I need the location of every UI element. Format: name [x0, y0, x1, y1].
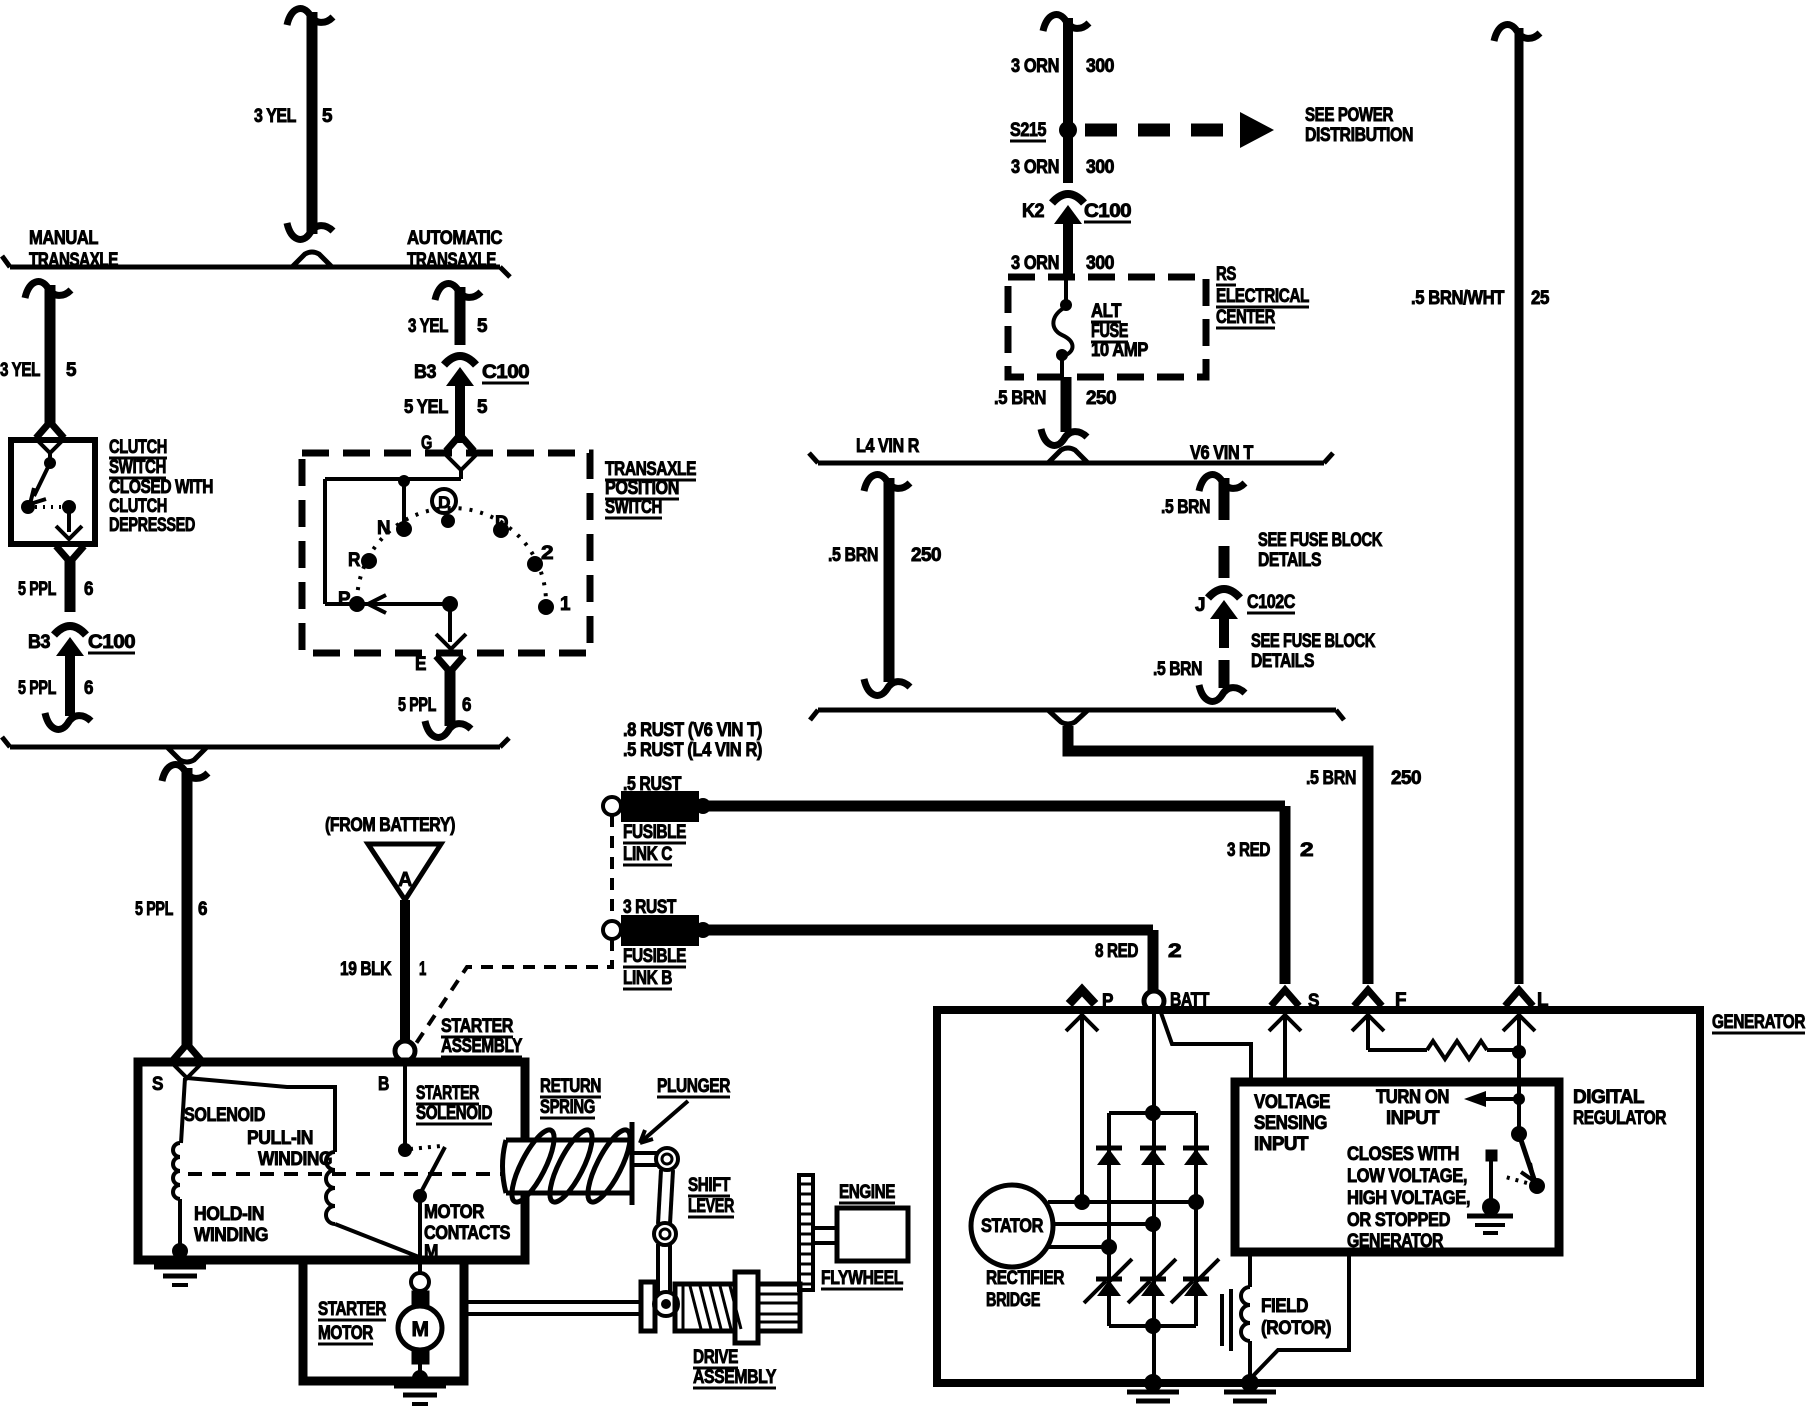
svg-text:SWITCH: SWITCH	[109, 457, 166, 478]
svg-text:RETURN: RETURN	[540, 1076, 601, 1097]
svg-text:6: 6	[84, 678, 93, 699]
svg-text:.5 RUST (L4 VIN R): .5 RUST (L4 VIN R)	[623, 740, 762, 761]
svg-text:6: 6	[84, 579, 93, 600]
svg-text:VOLTAGE: VOLTAGE	[1254, 1092, 1330, 1113]
svg-text:RS: RS	[1216, 264, 1236, 285]
svg-text:POSITION: POSITION	[605, 478, 679, 499]
svg-text:M: M	[412, 1318, 429, 1341]
svg-text:A: A	[398, 869, 412, 891]
svg-text:RECTIFIER: RECTIFIER	[986, 1268, 1065, 1289]
svg-text:25: 25	[1531, 288, 1550, 309]
svg-text:SWITCH: SWITCH	[605, 497, 662, 518]
svg-text:GENERATOR: GENERATOR	[1347, 1231, 1444, 1252]
svg-text:BRIDGE: BRIDGE	[986, 1290, 1040, 1311]
svg-text:PULL-IN: PULL-IN	[247, 1128, 313, 1149]
svg-text:300: 300	[1086, 56, 1114, 77]
svg-text:V6 VIN T: V6 VIN T	[1190, 443, 1254, 464]
svg-text:CLUTCH: CLUTCH	[109, 437, 167, 458]
svg-text:C102C: C102C	[1247, 592, 1296, 613]
svg-text:MOTOR: MOTOR	[318, 1323, 374, 1344]
svg-text:B3: B3	[28, 632, 50, 653]
svg-text:CONTACTS: CONTACTS	[424, 1223, 510, 1244]
svg-text:5 PPL: 5 PPL	[135, 899, 174, 920]
svg-text:E: E	[415, 654, 426, 675]
svg-text:SPRING: SPRING	[540, 1097, 595, 1118]
svg-text:L: L	[1537, 990, 1549, 1011]
svg-text:J: J	[1195, 595, 1205, 616]
svg-text:2: 2	[1168, 941, 1181, 962]
svg-text:STATOR: STATOR	[981, 1216, 1044, 1237]
svg-text:FUSE: FUSE	[1091, 321, 1128, 342]
svg-text:5 PPL: 5 PPL	[18, 579, 57, 600]
svg-text:INPUT: INPUT	[1254, 1134, 1309, 1155]
svg-text:2: 2	[541, 543, 553, 564]
svg-text:.5 BRN: .5 BRN	[1306, 768, 1356, 789]
svg-text:HIGH VOLTAGE,: HIGH VOLTAGE,	[1347, 1188, 1470, 1209]
svg-text:5: 5	[66, 360, 77, 381]
svg-text:5: 5	[477, 316, 488, 337]
svg-text:300: 300	[1086, 157, 1114, 178]
svg-text:PLUNGER: PLUNGER	[657, 1076, 731, 1097]
svg-text:TRANSAXLE: TRANSAXLE	[407, 250, 496, 271]
svg-text:ELECTRICAL: ELECTRICAL	[1216, 286, 1310, 307]
svg-text:250: 250	[911, 545, 941, 566]
svg-text:.5 BRN: .5 BRN	[994, 388, 1046, 409]
svg-text:WINDING: WINDING	[194, 1225, 268, 1246]
svg-text:TRANSAXLE: TRANSAXLE	[29, 250, 118, 271]
svg-text:P: P	[1102, 991, 1114, 1012]
svg-text:1: 1	[560, 594, 571, 615]
svg-text:CLUTCH: CLUTCH	[109, 496, 167, 517]
svg-text:3 ORN: 3 ORN	[1011, 56, 1059, 77]
svg-text:3 YEL: 3 YEL	[0, 360, 41, 381]
svg-text:TURN ON: TURN ON	[1376, 1087, 1449, 1108]
svg-text:INPUT: INPUT	[1386, 1108, 1440, 1129]
svg-text:FUSIBLE: FUSIBLE	[623, 822, 686, 843]
svg-text:BATT: BATT	[1170, 990, 1210, 1011]
svg-text:SEE POWER: SEE POWER	[1305, 105, 1394, 126]
svg-text:5: 5	[322, 106, 333, 127]
svg-text:.5 BRN/WHT: .5 BRN/WHT	[1411, 288, 1505, 309]
svg-text:5 PPL: 5 PPL	[18, 678, 57, 699]
svg-text:.5 BRN: .5 BRN	[1153, 659, 1202, 680]
svg-text:SEE FUSE BLOCK: SEE FUSE BLOCK	[1251, 631, 1376, 652]
svg-text:K2: K2	[1022, 201, 1044, 222]
svg-text:FUSIBLE: FUSIBLE	[623, 946, 686, 967]
svg-text:5 PPL: 5 PPL	[398, 695, 437, 716]
svg-text:ENGINE: ENGINE	[839, 1182, 895, 1203]
svg-text:3 ORN: 3 ORN	[1011, 157, 1059, 178]
svg-text:3 YEL: 3 YEL	[254, 106, 297, 127]
svg-text:MOTOR: MOTOR	[424, 1202, 485, 1223]
svg-text:S215: S215	[1010, 120, 1047, 141]
svg-text:L4 VIN R: L4 VIN R	[856, 436, 920, 457]
svg-text:LINK C: LINK C	[623, 844, 673, 865]
svg-text:.5 BRN: .5 BRN	[828, 545, 878, 566]
svg-text:STARTER: STARTER	[441, 1016, 514, 1037]
svg-text:AUTOMATIC: AUTOMATIC	[407, 228, 503, 249]
svg-text:LOW VOLTAGE,: LOW VOLTAGE,	[1347, 1166, 1467, 1187]
svg-text:FLYWHEEL: FLYWHEEL	[821, 1268, 904, 1289]
svg-text:REGULATOR: REGULATOR	[1573, 1108, 1667, 1129]
svg-text:C100: C100	[88, 632, 135, 653]
svg-text:250: 250	[1391, 768, 1421, 789]
svg-text:D: D	[495, 513, 508, 534]
svg-text:N: N	[377, 518, 390, 539]
svg-text:GENERATOR: GENERATOR	[1712, 1012, 1806, 1033]
svg-text:SHIFT: SHIFT	[688, 1175, 731, 1196]
svg-text:ALT: ALT	[1091, 301, 1122, 322]
svg-text:300: 300	[1086, 253, 1114, 274]
svg-text:(FROM BATTERY): (FROM BATTERY)	[325, 815, 455, 836]
svg-text:250: 250	[1086, 388, 1116, 409]
svg-text:5: 5	[477, 397, 488, 418]
svg-text:HOLD-IN: HOLD-IN	[194, 1204, 264, 1225]
svg-text:SENSING: SENSING	[1254, 1113, 1327, 1134]
svg-text:S: S	[152, 1074, 163, 1095]
svg-text:1: 1	[419, 959, 427, 980]
svg-text:TRANSAXLE: TRANSAXLE	[605, 459, 696, 480]
svg-text:CLOSES WITH: CLOSES WITH	[1347, 1144, 1459, 1165]
svg-text:DRIVE: DRIVE	[693, 1347, 738, 1368]
svg-text:10 AMP: 10 AMP	[1091, 340, 1149, 361]
svg-text:3 RUST: 3 RUST	[623, 897, 677, 918]
svg-text:(ROTOR): (ROTOR)	[1261, 1318, 1331, 1339]
svg-text:3 RED: 3 RED	[1227, 840, 1270, 861]
svg-text:DIGITAL: DIGITAL	[1573, 1087, 1645, 1108]
svg-text:MANUAL: MANUAL	[29, 228, 99, 249]
svg-text:3 ORN: 3 ORN	[1011, 253, 1059, 274]
svg-text:CENTER: CENTER	[1216, 307, 1276, 328]
svg-text:R: R	[348, 550, 361, 571]
svg-text:WINDING: WINDING	[258, 1149, 332, 1170]
svg-text:LEVER: LEVER	[688, 1196, 735, 1217]
svg-text:B: B	[378, 1074, 389, 1095]
svg-text:SOLENOID: SOLENOID	[184, 1105, 265, 1126]
svg-text:CLOSED WITH: CLOSED WITH	[109, 477, 213, 498]
svg-text:DEPRESSED: DEPRESSED	[109, 515, 195, 536]
svg-text:19 BLK: 19 BLK	[340, 959, 392, 980]
svg-text:SEE FUSE BLOCK: SEE FUSE BLOCK	[1258, 530, 1383, 551]
svg-text:5 YEL: 5 YEL	[404, 397, 449, 418]
svg-text:F: F	[1395, 990, 1406, 1011]
svg-text:LINK B: LINK B	[623, 968, 672, 989]
svg-text:FIELD: FIELD	[1261, 1296, 1308, 1317]
svg-text:DISTRIBUTION: DISTRIBUTION	[1305, 125, 1413, 146]
svg-text:3 YEL: 3 YEL	[408, 316, 449, 337]
svg-text:DETAILS: DETAILS	[1251, 651, 1314, 672]
svg-text:6: 6	[462, 695, 471, 716]
svg-text:DETAILS: DETAILS	[1258, 550, 1321, 571]
svg-text:6: 6	[198, 899, 207, 920]
svg-text:B3: B3	[414, 362, 436, 383]
svg-text:STARTER: STARTER	[416, 1083, 480, 1104]
svg-text:2: 2	[1300, 840, 1313, 861]
svg-text:8 RED: 8 RED	[1095, 941, 1138, 962]
svg-text:.8 RUST (V6 VIN T): .8 RUST (V6 VIN T)	[623, 720, 762, 741]
svg-text:ASSEMBLY: ASSEMBLY	[441, 1036, 523, 1057]
svg-text:S: S	[1308, 991, 1319, 1012]
svg-text:P: P	[338, 589, 351, 610]
svg-text:STARTER: STARTER	[318, 1299, 387, 1320]
svg-text:ASSEMBLY: ASSEMBLY	[693, 1367, 777, 1388]
svg-text:C100: C100	[482, 362, 529, 383]
svg-text:.5 BRN: .5 BRN	[1161, 497, 1210, 518]
svg-text:OR STOPPED: OR STOPPED	[1347, 1210, 1450, 1231]
svg-text:C100: C100	[1084, 201, 1131, 222]
svg-text:SOLENOID: SOLENOID	[416, 1103, 492, 1124]
